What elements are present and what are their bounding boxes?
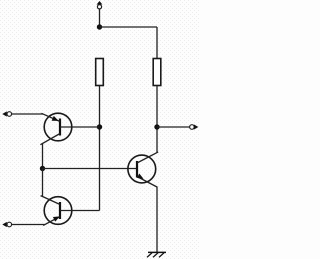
wire Q2 base to node — [60, 210, 100, 212]
wire node A to Q3 base — [43, 168, 138, 170]
junction node top — [97, 24, 102, 29]
transistor Q2 (PNP) — [41, 196, 72, 226]
wire node A down to Q2 collector — [42, 169, 44, 197]
junction node left collector — [97, 124, 102, 129]
wire to output terminal — [157, 126, 190, 128]
junction node A — [40, 166, 45, 171]
wire Q2 emitter to input2 — [12, 224, 45, 226]
wire top rail horizontal — [100, 26, 158, 28]
resistor R1 — [96, 59, 104, 86]
wire R2 bottom down to Q3 collector — [156, 86, 158, 153]
input terminal 1 — [2, 111, 11, 116]
power supply terminal V+ — [97, 1, 103, 9]
wire input1 to Q1 emitter — [12, 113, 43, 115]
wire Q1 base to node — [60, 126, 100, 128]
wire supply to junction — [99, 9, 101, 27]
resistor R2 — [153, 59, 161, 86]
transistor Q1 (PNP) — [40, 113, 71, 145]
input terminal 2 — [2, 222, 11, 227]
junction node right collector — [154, 124, 159, 129]
ground — [147, 252, 166, 257]
transistor Q3 (NPN) — [128, 152, 158, 187]
wire R1 bottom down to Q2 base — [99, 86, 101, 211]
wire Q1 collector down — [42, 143, 44, 169]
wire top rail down to R2 — [156, 27, 158, 59]
wire Q3 emitter down to ground — [156, 187, 158, 253]
output terminal — [190, 124, 199, 129]
